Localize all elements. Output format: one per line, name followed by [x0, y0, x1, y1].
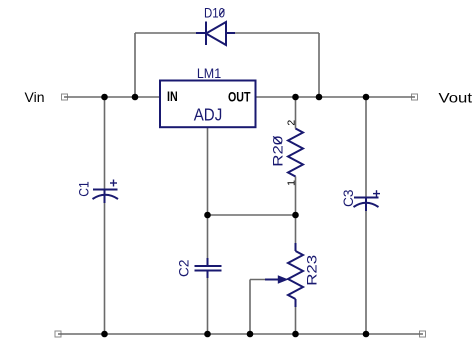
pin number 1 of R20 [286, 180, 298, 186]
wiper arrow of R23 [265, 275, 289, 284]
junction dot ground at C1 [101, 331, 108, 338]
junction dot R20 bottom node [292, 212, 299, 219]
svg-text:1: 1 [286, 180, 298, 186]
junction dot out rail at R20 [292, 94, 299, 101]
plus sign C1 [110, 180, 117, 187]
pin number 2 of R20 [286, 120, 298, 126]
svg-text:LM1: LM1 [197, 65, 221, 81]
capacitor C3 [354, 198, 379, 212]
svg-text:Vout: Vout [439, 90, 473, 106]
junction dot ground at R23 [292, 331, 299, 338]
label C1 [76, 181, 92, 197]
wire LM1 ADJ pin down [207, 127, 209, 215]
junction dot main rail at top loop left [132, 94, 139, 101]
wire ADJ junction to R20 bottom junction [208, 214, 296, 216]
port ground right [420, 331, 426, 337]
svg-text:2: 2 [286, 120, 298, 126]
label C2 [176, 259, 192, 276]
svg-text:Vin: Vin [25, 89, 45, 105]
svg-text:IN: IN [167, 89, 178, 104]
svg-text:ADJ: ADJ [194, 105, 223, 125]
wire R23 wiper horizontal [250, 279, 268, 281]
wire bottom ground rail [58, 333, 423, 335]
potentiometer R23 [288, 243, 303, 307]
wire LM1 OUT pin to Vout port [256, 96, 416, 98]
regulator LM1 box [160, 81, 256, 128]
svg-text:C3: C3 [340, 189, 356, 207]
plus sign C3 [373, 190, 380, 197]
wire C3 top [365, 97, 367, 197]
junction dot ADJ node [204, 212, 211, 219]
junction dot ground at C2 [204, 331, 211, 338]
junction dot out rail at C3 [363, 94, 370, 101]
wire R20 top pin [295, 97, 297, 129]
port ground left [55, 331, 61, 337]
port Vin [62, 94, 68, 100]
svg-text:OUT: OUT [228, 90, 251, 105]
wire C3 bottom [365, 204, 367, 334]
capacitor C1 [93, 190, 119, 204]
label D10 [204, 5, 225, 21]
resistor R20 [288, 129, 303, 177]
capacitor C2 [195, 258, 222, 278]
wire top loop left horizontal to D10 [135, 32, 197, 34]
port Vout [412, 94, 418, 100]
wire C1 top [104, 97, 106, 189]
diode D10 [196, 22, 235, 46]
junction dot main rail at C1 [101, 94, 108, 101]
wire R23 bottom pin [295, 306, 297, 334]
wire D10 to top loop right horizontal [234, 32, 319, 34]
junction dot ground at C3 [363, 331, 370, 338]
junction dot ground at wiper [247, 331, 254, 338]
wire C2 bottom [207, 272, 209, 335]
wire ADJ junction to C2 [207, 215, 209, 265]
wire Vin port to LM1 IN pin [64, 96, 160, 98]
wire R23 top pin [295, 215, 297, 244]
svg-text:C1: C1 [76, 181, 92, 197]
label R23 [304, 255, 320, 286]
junction dot out rail at top loop right [316, 94, 323, 101]
svg-text:R23: R23 [304, 255, 320, 286]
wire top loop right vertical [318, 33, 320, 97]
wire R20 bottom pin [295, 177, 297, 216]
svg-text:C2: C2 [176, 259, 192, 276]
wire top loop left vertical [134, 33, 136, 97]
label R20 [270, 135, 286, 166]
label C3 [340, 189, 356, 207]
wire R23 wiper vertical [249, 280, 251, 335]
wire C1 bottom [104, 196, 106, 334]
